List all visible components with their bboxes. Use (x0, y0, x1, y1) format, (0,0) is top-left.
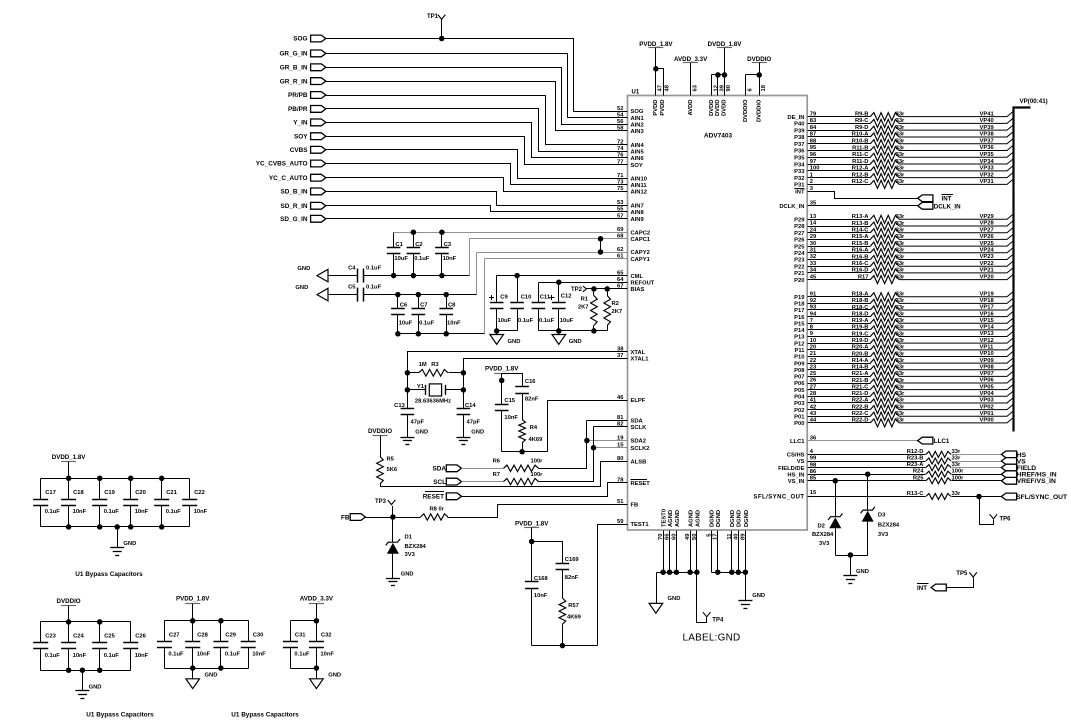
junction SDA2 (584, 438, 590, 444)
junction SFL/TP6 (976, 494, 982, 500)
ground arrow C4 (317, 269, 328, 282)
pin 33 P22 stub (808, 266, 871, 268)
svg-text:GND: GND (205, 673, 218, 679)
power symbol AVDD_3.3V (top) (683, 62, 698, 64)
svg-text:VP21: VP21 (980, 268, 995, 274)
svg-text:DVDDIO: DVDDIO (743, 99, 749, 122)
pin 70 TEST0 stub (663, 531, 665, 573)
wire D2-D3 ground rail (836, 555, 868, 557)
resistor R18-C 33r (870, 306, 899, 314)
svg-text:100r: 100r (952, 469, 965, 475)
wire VP14 to bus (899, 325, 1013, 330)
plus sign C12 (549, 297, 554, 299)
svg-text:C19: C19 (104, 490, 115, 496)
wire C15 bottom to rail (501, 411, 503, 452)
wire SCL to R7 (462, 481, 504, 483)
svg-text:R14-C: R14-C (852, 228, 870, 234)
connector FIELD (right) (1001, 464, 1016, 471)
resistor R12-B 33r (870, 174, 899, 182)
pin 41 P03 stub (808, 402, 871, 404)
junction DVDD a (715, 72, 721, 78)
junction top rail (bank3 PVDD) (190, 618, 196, 624)
junction bottom rail (bank1 DVDD) (114, 524, 120, 530)
svg-text:92: 92 (810, 298, 816, 304)
wire SFL/SYNC_OUT to connector (952, 496, 1002, 498)
svg-text:P16: P16 (794, 315, 805, 321)
svg-text:D3: D3 (878, 513, 886, 519)
svg-text:PVDD_1.8V: PVDD_1.8V (515, 521, 549, 528)
svg-text:AGND: AGND (668, 510, 674, 527)
wire VP27 to bus (899, 228, 1013, 233)
svg-text:VP13: VP13 (980, 331, 995, 337)
pin 31 P24 stub (808, 252, 871, 254)
svg-text:0.1uF: 0.1uF (168, 652, 184, 658)
svg-text:C1: C1 (395, 242, 403, 248)
wire gnd arrow to C5 (329, 294, 358, 296)
pin 93 P17 stub (808, 309, 871, 311)
wire branch to C16 (502, 374, 523, 387)
svg-text:10nF: 10nF (194, 509, 208, 515)
svg-text:R12-B: R12-B (852, 172, 869, 178)
svg-text:13: 13 (810, 214, 817, 220)
pin 40 DGND stub (738, 531, 740, 573)
pin 4 CS/HS stub (808, 454, 926, 456)
svg-text:0.1uF: 0.1uF (419, 321, 435, 327)
svg-text:R16-A: R16-A (852, 248, 870, 254)
svg-text:R18-A: R18-A (852, 292, 870, 298)
pin 64 REFOUT wire (539, 282, 628, 284)
power symbol PVDD_1.8V (ELPF) (494, 373, 509, 375)
svg-text:TEST1: TEST1 (631, 522, 650, 528)
wire Y_IN to pin AIN6 (326, 123, 628, 158)
junction bottom rail (bank3 PVDD) (190, 665, 196, 671)
svg-text:10nF: 10nF (135, 509, 149, 515)
svg-text:2K7: 2K7 (578, 304, 589, 310)
svg-text:P39: P39 (794, 128, 805, 134)
svg-text:C26: C26 (135, 633, 146, 639)
svg-text:C20: C20 (135, 490, 146, 496)
svg-text:P10: P10 (794, 355, 804, 361)
svg-text:P11: P11 (795, 348, 806, 354)
svg-text:P38: P38 (794, 135, 805, 141)
svg-text:AIN1: AIN1 (631, 116, 645, 122)
svg-text:PVDD_1.8V: PVDD_1.8V (639, 41, 673, 48)
svg-text:98: 98 (810, 462, 817, 468)
svg-text:55: 55 (617, 207, 624, 213)
svg-text:PVDD_1.8V: PVDD_1.8V (485, 366, 519, 373)
svg-text:CAPC2: CAPC2 (631, 230, 651, 236)
junction bottom rail (bank3 PVDD) (218, 665, 224, 671)
svg-text:INT: INT (942, 196, 952, 203)
svg-text:0.1uF: 0.1uF (225, 652, 241, 658)
wire RESET (462, 483, 628, 497)
junction C12 bottom (556, 328, 562, 334)
capacitor C7 0.1uF (418, 295, 420, 309)
wire VP21 to bus (899, 268, 1013, 273)
capacitor C28 10nF (192, 621, 194, 642)
wire VP41 to bus (899, 111, 1013, 116)
wire gnd stem (bank4 AVDD) (316, 669, 318, 679)
wire VP06 to bus (899, 378, 1013, 383)
svg-text:TP2: TP2 (571, 287, 583, 293)
pin 99 VS stub (808, 461, 926, 463)
svg-text:VP40: VP40 (980, 118, 994, 124)
svg-text:C16: C16 (525, 379, 536, 385)
svg-text:VP12: VP12 (980, 338, 994, 344)
svg-text:R15-A: R15-A (852, 234, 870, 240)
svg-text:15: 15 (617, 443, 624, 449)
wire VP16 to bus (899, 311, 1013, 316)
connector SOG input (311, 35, 326, 42)
pin 5 DGND stub (711, 531, 713, 573)
junction AGND 66 (667, 569, 673, 575)
svg-text:3V3: 3V3 (405, 552, 416, 558)
svg-text:INT: INT (795, 190, 805, 196)
svg-text:PVDD_1.8V: PVDD_1.8V (176, 596, 210, 603)
svg-text:R18-C: R18-C (852, 305, 870, 311)
wire gnd stem (bank3 PVDD) (192, 669, 194, 679)
svg-text:VP24: VP24 (980, 248, 995, 254)
wire VP37 to bus (899, 139, 1013, 144)
svg-text:C25: C25 (104, 633, 115, 639)
capacitor C13 47pF (401, 408, 415, 410)
ground D1 (386, 578, 400, 580)
svg-text:DVDDIO: DVDDIO (368, 428, 392, 435)
svg-text:D1: D1 (405, 535, 413, 541)
resistor R10-B 33r (870, 140, 899, 148)
wire VP38 to bus (899, 132, 1013, 137)
svg-text:74: 74 (617, 146, 624, 152)
pin 97 P34 stub (808, 164, 871, 166)
svg-text:VP32: VP32 (980, 172, 994, 178)
resistor R16-A 33r (870, 249, 899, 257)
svg-text:R4: R4 (530, 425, 538, 431)
svg-text:P04: P04 (794, 395, 805, 401)
svg-text:P33: P33 (794, 169, 805, 175)
svg-text:14: 14 (810, 221, 817, 227)
junction R4 bottom (519, 449, 525, 455)
power symbol DVDDIO (R5) (373, 435, 388, 437)
svg-text:80: 80 (617, 456, 623, 462)
resistor R14-A 33r (870, 359, 899, 367)
junction top rail (bank1 DVDD) (97, 476, 103, 482)
svg-text:15: 15 (810, 490, 817, 496)
test point TP2 arrow (583, 286, 587, 292)
svg-text:R23-A: R23-A (907, 462, 925, 468)
wire VP35 to bus (899, 152, 1013, 157)
junction PVDD (653, 66, 659, 72)
svg-text:R19-A: R19-A (852, 318, 870, 324)
wire gnd stem (bank1 DVDD) (117, 527, 119, 548)
wire R6 to SDA/SDA2 (539, 421, 587, 469)
pin 28 P04 stub (808, 396, 871, 398)
resistor R8 0r (393, 517, 421, 519)
svg-text:P34: P34 (794, 162, 805, 168)
svg-text:R10-B: R10-B (852, 139, 869, 145)
svg-text:C28: C28 (197, 632, 208, 638)
wire VP23 to bus (899, 254, 1013, 259)
junction top rail (bank2 DVDDIO) (66, 619, 72, 625)
wire R8 to FB pin (448, 505, 628, 518)
junction bottom rail (bank1 DVDD) (128, 524, 134, 530)
svg-text:VP14: VP14 (980, 325, 995, 331)
junction DGND 11 (729, 569, 735, 575)
svg-text:SFL/SYNC_OUT: SFL/SYNC_OUT (1016, 494, 1068, 501)
svg-text:SOG: SOG (631, 109, 644, 115)
svg-text:R13-C: R13-C (907, 491, 925, 497)
resistor R19-A 33r (870, 319, 899, 327)
junction C1 bottom (391, 273, 397, 279)
pin 8 P14 stub (808, 329, 871, 331)
resistor R23-A 33r (926, 465, 951, 471)
svg-text:58: 58 (617, 126, 624, 132)
wire VP36 to bus (899, 145, 1013, 150)
svg-text:VP26: VP26 (980, 234, 995, 240)
svg-text:52: 52 (617, 106, 623, 112)
wire VP40 to bus (899, 118, 1013, 123)
svg-text:BZX284: BZX284 (878, 522, 900, 528)
pin 59 TEST1 wire (598, 525, 628, 646)
plus sign C9 (489, 297, 494, 299)
svg-text:DVDDIO: DVDDIO (57, 598, 81, 605)
pin 27 P05 stub (808, 389, 871, 391)
svg-text:ALSB: ALSB (631, 459, 647, 465)
svg-text:VP23: VP23 (980, 254, 995, 260)
capacitor C15 10nF (495, 404, 509, 406)
wire bottom rail (bank2 DVDDIO) (41, 670, 131, 672)
capacitor C11 0.1uF (538, 283, 540, 303)
wire DVDD branch to pins 12 and 39 (712, 74, 725, 76)
svg-text:GND: GND (415, 429, 428, 435)
svg-text:DCLK_IN: DCLK_IN (934, 203, 961, 210)
ground triangle (bank3 PVDD) (186, 679, 200, 689)
svg-text:VP22: VP22 (980, 261, 994, 267)
svg-text:SDA: SDA (631, 419, 644, 425)
wire DVDDIO to pin 18 (759, 63, 761, 96)
junction D2 top (833, 478, 839, 484)
wire VP25 to bus (899, 241, 1013, 246)
ground D2-D3 (843, 575, 857, 577)
svg-text:P14: P14 (794, 328, 805, 334)
svg-text:R14-B: R14-B (852, 365, 869, 371)
resistor R20-B 33r (870, 352, 899, 360)
resistor R22-A 33r (870, 399, 899, 407)
wire C9-C10 bottom rail (497, 330, 518, 332)
wire C4 to C1-C3 bottom rail (364, 275, 470, 277)
capacitor C8 10nF (446, 295, 448, 309)
wire bottom rail (bank3 PVDD) (165, 668, 249, 670)
pin 62 CAPY2 wire (477, 252, 628, 254)
svg-text:C4: C4 (348, 266, 356, 272)
resistor R14-B 33r (870, 366, 899, 374)
svg-text:R16-C: R16-C (852, 261, 870, 267)
svg-text:VP34: VP34 (980, 159, 995, 165)
ground triangle AGND (649, 603, 663, 613)
svg-text:PVDD: PVDD (653, 100, 659, 116)
svg-text:62: 62 (617, 247, 623, 253)
capacitor C12 10uF polarized (558, 283, 560, 303)
svg-text:P06: P06 (794, 381, 805, 387)
svg-text:10uF: 10uF (399, 321, 413, 327)
svg-text:C21: C21 (166, 490, 177, 496)
svg-text:VP19: VP19 (980, 291, 995, 297)
svg-text:CAPY2: CAPY2 (631, 250, 650, 256)
pin 81 SDA stub (587, 420, 628, 422)
wire VP01 to bus (899, 411, 1013, 416)
svg-text:70: 70 (658, 534, 664, 540)
pin 49 AGND stub (690, 531, 692, 573)
svg-text:25: 25 (810, 371, 817, 377)
svg-text:CML: CML (631, 274, 644, 280)
svg-text:AGND: AGND (695, 510, 701, 527)
junction bridge top (598, 236, 604, 242)
svg-text:VP41: VP41 (980, 111, 995, 117)
svg-text:17: 17 (713, 534, 719, 540)
svg-text:VP17: VP17 (980, 305, 994, 311)
capacitor C22 10nF (189, 479, 191, 500)
bus VP[00:41] (1014, 108, 1031, 432)
pin 84 P39 stub (808, 130, 871, 132)
junction DVDD b (722, 72, 728, 78)
svg-text:5K6: 5K6 (387, 467, 398, 473)
pin 100 P33 stub (808, 170, 871, 172)
resistor R18-A 33r (870, 293, 899, 301)
svg-text:VP09: VP09 (980, 358, 995, 364)
wire VP10 to bus (899, 351, 1013, 356)
svg-text:SD_G_IN: SD_G_IN (280, 216, 308, 223)
junction DGND 89 (743, 569, 749, 575)
pin 43 P01 stub (808, 416, 871, 418)
svg-text:88: 88 (810, 138, 817, 144)
svg-text:AIN7: AIN7 (631, 203, 644, 209)
junction C6 top (395, 292, 401, 298)
junction Y1 right (461, 387, 467, 393)
svg-text:63: 63 (692, 84, 698, 91)
svg-text:P29: P29 (794, 218, 805, 224)
connector LLC1 (right) (918, 437, 933, 444)
svg-text:AIN12: AIN12 (631, 190, 647, 196)
svg-text:P15: P15 (794, 321, 805, 327)
pin 32 P23 stub (808, 259, 871, 261)
pin 9 P13 stub (808, 336, 871, 338)
svg-text:P40: P40 (794, 122, 804, 128)
svg-text:XTAL1: XTAL1 (631, 357, 650, 363)
junction Y1 left (405, 387, 411, 393)
connector GR_G_IN input (311, 50, 326, 57)
svg-text:C23: C23 (45, 633, 56, 639)
svg-text:R9-B: R9-B (855, 111, 869, 117)
pin 69 CAPC2 wire / C1-C3 top rail (394, 232, 628, 234)
svg-text:FB: FB (341, 514, 350, 521)
svg-text:U1 Bypass Capacitors: U1 Bypass Capacitors (231, 711, 299, 718)
svg-text:ELPF: ELPF (631, 398, 646, 404)
svg-text:DGND: DGND (737, 510, 743, 527)
svg-text:R21-C: R21-C (852, 384, 870, 390)
svg-text:11: 11 (727, 533, 733, 540)
svg-text:38: 38 (617, 346, 624, 352)
capacitor C30 10nF (248, 621, 250, 642)
svg-text:0.1uF: 0.1uF (518, 318, 534, 324)
pin 21 P10 stub (808, 356, 871, 358)
connector SCL (446, 478, 461, 485)
svg-text:31: 31 (810, 248, 817, 254)
svg-text:GR_R_IN: GR_R_IN (280, 78, 308, 85)
ground C14 (456, 437, 470, 439)
svg-text:28.63636MHz: 28.63636MHz (415, 398, 451, 404)
wire PVDD branch to pin 48 (656, 69, 664, 96)
svg-text:SCLK2: SCLK2 (631, 446, 650, 452)
svg-text:32: 32 (810, 254, 816, 260)
svg-text:SDA2: SDA2 (631, 439, 646, 445)
capacitor C169 82nF (556, 563, 570, 565)
pin 96 P35 stub (808, 157, 871, 159)
svg-text:C29: C29 (225, 632, 236, 638)
wire gnd stem D2D3 (850, 556, 852, 576)
svg-text:VP10: VP10 (980, 351, 994, 357)
svg-text:R11-B: R11-B (852, 145, 868, 151)
svg-text:60: 60 (671, 534, 677, 540)
junction AGND 50 (694, 569, 700, 575)
capacitor C27 0.1uF (164, 621, 166, 642)
svg-text:59: 59 (617, 519, 624, 525)
resistor R9-D 33r (870, 126, 899, 134)
svg-text:77: 77 (617, 159, 623, 165)
resistor R9-B 33r (870, 113, 899, 121)
svg-text:PR/PB: PR/PB (288, 92, 308, 99)
pin 29 P26 stub (808, 239, 871, 241)
svg-text:R24: R24 (913, 469, 924, 475)
svg-text:YC_CVBS_AUTO: YC_CVBS_AUTO (256, 161, 308, 168)
svg-text:21: 21 (810, 351, 817, 357)
svg-text:CAPY1: CAPY1 (631, 257, 651, 263)
connector Y_IN input (311, 119, 326, 126)
svg-text:73: 73 (617, 180, 624, 186)
svg-text:10nF: 10nF (443, 256, 457, 262)
svg-text:P13: P13 (794, 335, 805, 341)
connector INT (bottom) (931, 584, 946, 591)
wire VP31 to bus (899, 179, 1013, 184)
svg-text:VP35: VP35 (980, 152, 995, 158)
capacitor C29 0.1uF (220, 621, 222, 642)
svg-text:GND: GND (569, 339, 582, 345)
connector FB (350, 514, 365, 521)
svg-text:GND: GND (471, 429, 484, 435)
svg-text:SCL: SCL (433, 479, 446, 486)
resistor R15-B 33r (870, 242, 899, 250)
power symbol AVDD_3.3V (bank4 AVDD) (309, 603, 324, 605)
junction FB (390, 514, 396, 520)
pin 10 P12 stub (808, 343, 871, 345)
ground triangle C9-C10 (490, 335, 504, 345)
svg-text:84: 84 (810, 125, 817, 131)
svg-text:R14-A: R14-A (852, 358, 870, 364)
svg-text:R1: R1 (581, 297, 589, 303)
svg-text:BIAS: BIAS (631, 287, 645, 293)
wire SDA to R6 (462, 468, 504, 470)
pin 60 AGND stub (676, 531, 678, 573)
svg-text:19: 19 (617, 435, 624, 441)
svg-text:0.1uF: 0.1uF (45, 509, 61, 515)
pin 50 AGND stub (696, 531, 698, 573)
pin 22 P09 stub (808, 363, 871, 365)
wire VP07 to bus (899, 371, 1013, 376)
svg-text:R22-A: R22-A (852, 398, 870, 404)
wire D3 anode (867, 475, 869, 511)
svg-text:AIN6: AIN6 (631, 156, 645, 162)
resistor R16-D 33r (870, 269, 899, 277)
svg-text:47pF: 47pF (467, 419, 481, 425)
svg-text:DVDD: DVDD (722, 100, 728, 116)
